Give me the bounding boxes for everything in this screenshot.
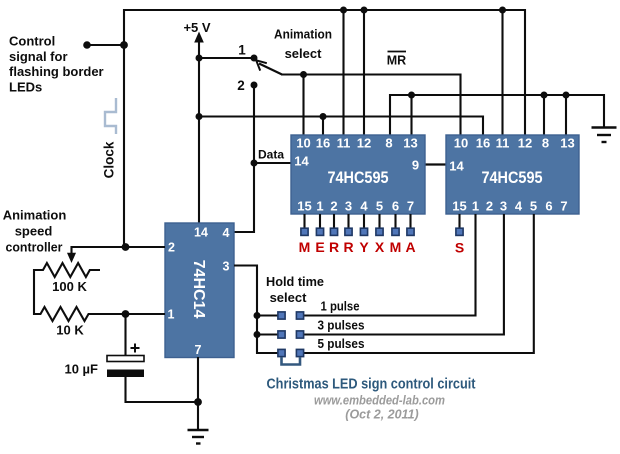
- junction top rail chip1 pin12: [361, 7, 368, 14]
- wire ground rail: [390, 95, 604, 136]
- U3 top pin labels 10 16 11 12 8 13: [454, 136, 575, 151]
- label Animation select: [274, 27, 332, 62]
- ground symbol top right: [592, 128, 617, 143]
- svg-text:Y: Y: [359, 239, 369, 255]
- LED pad R1: [330, 228, 337, 235]
- wire hold row2 to chip2 pin3: [304, 214, 504, 335]
- svg-text:+5 V: +5 V: [183, 20, 210, 35]
- wire 74HC14 pin7 to ground: [197, 357, 199, 430]
- svg-text:2: 2: [330, 199, 337, 214]
- svg-text:4: 4: [223, 226, 230, 240]
- label control signal: [9, 34, 104, 95]
- ground symbol bottom: [188, 430, 209, 444]
- svg-text:1: 1: [472, 199, 479, 214]
- junction hold row2: [254, 331, 261, 338]
- svg-text:Control: Control: [9, 34, 55, 49]
- junction top rail chip1 pin11: [340, 7, 347, 14]
- IC U2 74HC595 first: [291, 135, 425, 214]
- svg-text:12: 12: [518, 136, 532, 151]
- svg-text:www.embedded-lab.com: www.embedded-lab.com: [314, 394, 445, 408]
- junction hold row1: [254, 312, 261, 319]
- svg-text:select: select: [270, 290, 308, 305]
- svg-text:10: 10: [454, 136, 468, 151]
- svg-text:10: 10: [296, 136, 310, 151]
- chip1 output stubs and pads: [305, 214, 411, 228]
- U2 bottom pin labels 15 1 2 3 4 5 6 7: [297, 199, 414, 214]
- switch arm animation select: [256, 60, 282, 74]
- LED pad M1: [301, 228, 308, 235]
- switch contact 2 dot: [251, 82, 258, 89]
- jumper pad row1 left: [278, 312, 285, 319]
- svg-text:A: A: [405, 239, 415, 255]
- svg-text:1: 1: [316, 199, 323, 214]
- wire chip2 pin11 drop: [501, 10, 503, 136]
- wire hold row1 to chip2 pin1: [304, 214, 476, 316]
- svg-text:13: 13: [403, 136, 417, 151]
- svg-text:16: 16: [476, 136, 490, 151]
- wire 74HC14 pin2 with wiper arrow: [67, 247, 165, 263]
- svg-text:speed: speed: [15, 224, 53, 239]
- wire 74HC14 pin3 to hold-time select: [234, 266, 278, 354]
- svg-text:2: 2: [168, 241, 175, 255]
- jumper shunt row3: [282, 357, 301, 365]
- jumper pad row2 left: [278, 331, 285, 338]
- svg-text:74HC14: 74HC14: [190, 260, 207, 319]
- svg-text:13: 13: [560, 136, 574, 151]
- svg-text:10 K: 10 K: [56, 323, 84, 338]
- letters MERRYXMA: [299, 239, 416, 255]
- svg-text:14: 14: [194, 226, 208, 240]
- svg-text:3: 3: [345, 199, 352, 214]
- LED pad A: [407, 228, 414, 235]
- svg-text:Animation: Animation: [274, 27, 332, 42]
- svg-text:100 K: 100 K: [52, 279, 87, 294]
- svg-text:15: 15: [297, 199, 311, 214]
- clock waveform glyph: [105, 98, 116, 134]
- svg-text:LEDs: LEDs: [9, 79, 42, 94]
- wire chip1 pin12 drop: [363, 10, 365, 136]
- svg-text:11: 11: [337, 136, 351, 151]
- wire +5V vertical to 74HC14 pin 14: [194, 32, 204, 224]
- svg-text:Clock: Clock: [102, 141, 117, 178]
- svg-text:4: 4: [515, 199, 523, 214]
- capacitor C1 plus sign: [131, 344, 140, 353]
- svg-text:4: 4: [360, 199, 368, 214]
- svg-text:12: 12: [357, 136, 371, 151]
- wire switch contact2 / data vertical: [234, 85, 254, 232]
- wire chip2 pin8 drop: [543, 95, 545, 136]
- jumper pad row1 right: [296, 312, 303, 319]
- svg-text:R: R: [329, 239, 339, 255]
- IC U1 74HC14: [165, 223, 234, 358]
- label Hold time select: [266, 274, 324, 305]
- svg-text:74HC595: 74HC595: [482, 169, 543, 187]
- jumper pad row3 left: [278, 349, 285, 356]
- potentiometer 100K: [34, 263, 100, 277]
- svg-text:16: 16: [316, 136, 330, 151]
- wire chip1 pin13 drop: [410, 95, 412, 136]
- LED pad R2: [345, 228, 352, 235]
- svg-text:1: 1: [238, 43, 246, 58]
- svg-text:6: 6: [545, 199, 552, 214]
- junction pin1 wire / capacitor: [122, 310, 130, 318]
- LED pad Y: [360, 228, 367, 235]
- junction gnd rail chip2 pin13: [563, 92, 570, 99]
- svg-text:select: select: [285, 46, 323, 61]
- label MR with overline: [387, 52, 406, 68]
- wire control signal stub: [87, 44, 124, 46]
- junction +5V rail chip1 pin16: [320, 113, 327, 120]
- wire to switch contact 1: [199, 57, 254, 59]
- wire chip1 pin10 drop: [302, 75, 304, 137]
- svg-text:6: 6: [392, 199, 399, 214]
- wire capacitor to ground node: [126, 377, 199, 402]
- wire left border vertical: [123, 9, 125, 247]
- wire hold row2 left stub: [257, 333, 278, 335]
- svg-text:7: 7: [195, 343, 202, 357]
- junction ground node: [194, 398, 202, 406]
- wire chip2 pin12 drop from top rail: [524, 9, 526, 136]
- svg-text:1: 1: [168, 308, 175, 322]
- svg-text:M: M: [299, 239, 311, 255]
- svg-text:Animation: Animation: [3, 208, 67, 223]
- svg-text:2: 2: [237, 78, 245, 93]
- junction gnd rail chip2 pin8: [541, 92, 548, 99]
- capacitor C1 bottom plate: [107, 370, 144, 378]
- wire pot left rail: [33, 269, 35, 315]
- svg-text:1 pulse: 1 pulse: [321, 299, 360, 314]
- wire data to chip1 pin14: [254, 162, 292, 164]
- LED pad S: [456, 228, 463, 235]
- wire chip1 pin16 drop: [322, 117, 324, 137]
- svg-text:14: 14: [294, 154, 309, 169]
- svg-text:15: 15: [452, 199, 466, 214]
- svg-text:11: 11: [496, 136, 510, 151]
- wire chip1 pin9 to chip2 pin14: [424, 163, 447, 165]
- IC U3 74HC595 second: [446, 135, 579, 214]
- U2 top pin labels 10 16 11 12 8 13: [296, 136, 417, 151]
- chip2 pin15 stub: [458, 214, 460, 228]
- junction gnd rail chip1 pin13: [408, 92, 415, 99]
- U3 bottom pin labels 15 1 2 3 4 5 6 7: [452, 199, 567, 214]
- LED pad M2: [392, 228, 399, 235]
- svg-text:MR: MR: [387, 54, 406, 68]
- svg-text:S: S: [455, 240, 464, 256]
- wire capacitor top lead: [124, 314, 126, 356]
- svg-text:signal for: signal for: [9, 49, 68, 64]
- svg-text:74HC595: 74HC595: [328, 169, 389, 187]
- junction data: [251, 160, 258, 167]
- svg-text:M: M: [390, 239, 402, 255]
- svg-text:5: 5: [376, 199, 383, 214]
- jumper pad row3 right: [296, 349, 303, 356]
- wire hold row3 to chip2 pin5: [304, 214, 534, 353]
- svg-text:3: 3: [500, 199, 507, 214]
- svg-text:Hold time: Hold time: [266, 274, 324, 289]
- switch contact 1 dot: [251, 55, 258, 62]
- wire clock top rail: [124, 9, 525, 11]
- junction control-left border: [120, 41, 128, 49]
- wire chip1 pin11 drop: [342, 10, 344, 136]
- svg-text:E: E: [315, 239, 324, 255]
- wire +5V rail to shift registers: [199, 117, 483, 137]
- svg-text:3: 3: [223, 260, 230, 274]
- svg-text:controller: controller: [6, 240, 63, 255]
- svg-text:5 pulses: 5 pulses: [318, 336, 365, 351]
- svg-text:8: 8: [385, 136, 392, 151]
- svg-text:8: 8: [542, 136, 549, 151]
- junction +5V rail at vertical: [196, 113, 203, 120]
- LED pad X: [376, 228, 383, 235]
- capacitor C1 top plate: [107, 356, 144, 362]
- wire hold row1 left stub: [257, 314, 278, 316]
- svg-text:7: 7: [407, 199, 414, 214]
- junction +5V / contact1 wire: [196, 55, 203, 62]
- wire chip2 pin13 drop: [565, 95, 567, 136]
- svg-text:5: 5: [530, 199, 537, 214]
- LED pad E: [316, 228, 323, 235]
- svg-text:9: 9: [412, 158, 419, 173]
- svg-text:Data: Data: [258, 148, 284, 162]
- resistor 10K: [34, 307, 165, 321]
- label +5 V: [183, 20, 210, 35]
- svg-text:7: 7: [560, 199, 567, 214]
- svg-text:14: 14: [449, 159, 464, 174]
- svg-text:flashing border: flashing border: [9, 64, 104, 79]
- svg-text:X: X: [375, 239, 385, 255]
- svg-text:(Oct 2, 2011): (Oct 2, 2011): [345, 408, 418, 422]
- svg-text:Christmas LED sign control cir: Christmas LED sign control circuit: [267, 377, 476, 393]
- jumper pad row2 right: [296, 331, 303, 338]
- terminal dot control signal: [83, 41, 91, 49]
- svg-text:R: R: [343, 239, 353, 255]
- label animation speed controller: [3, 208, 67, 255]
- svg-text:2: 2: [486, 199, 493, 214]
- junction pin2 wire / left border: [122, 243, 130, 251]
- junction top rail chip2 pin11: [499, 7, 506, 14]
- junction MR / chip1 pin10: [300, 71, 307, 78]
- svg-text:3 pulses: 3 pulses: [318, 318, 365, 333]
- svg-text:10 µF: 10 µF: [64, 362, 98, 377]
- wire MR line from switch: [281, 75, 461, 137]
- label Clock: [102, 141, 117, 178]
